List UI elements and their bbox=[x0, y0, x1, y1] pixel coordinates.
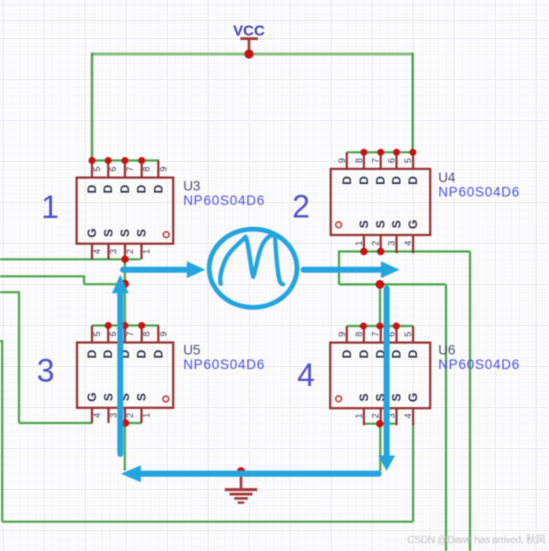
junction U4 pin7 bbox=[377, 149, 384, 156]
junction U6 pin8 bbox=[360, 323, 367, 330]
wire left net step bbox=[83, 275, 85, 284]
svg-text:4: 4 bbox=[297, 357, 315, 393]
wire U3 source rail to left edge bbox=[0, 258, 141, 260]
U4 bottom pin stub 2 bbox=[380, 235, 382, 253]
ground bbox=[225, 467, 257, 503]
U6 top pin stub 5 bbox=[412, 326, 414, 343]
svg-text:5: 5 bbox=[92, 331, 102, 336]
junction U3 pin6 bbox=[105, 157, 112, 164]
U5 top pin stub 6 bbox=[107, 326, 109, 343]
U5 bottom pin stub 3 bbox=[107, 408, 109, 423]
svg-text:7: 7 bbox=[371, 158, 381, 163]
svg-text:G: G bbox=[85, 392, 99, 401]
svg-text:9: 9 bbox=[337, 332, 347, 337]
U6 top pin stub 7 bbox=[380, 326, 382, 343]
svg-text:1: 1 bbox=[354, 413, 364, 418]
svg-text:8: 8 bbox=[354, 158, 364, 163]
svg-text:D: D bbox=[357, 176, 371, 185]
svg-text:5: 5 bbox=[403, 158, 413, 163]
transistor U5 body bbox=[77, 343, 173, 408]
junction U3 pin5 bbox=[89, 157, 96, 164]
U3 pin-1 indicator circle bbox=[163, 232, 169, 238]
wire VCC drop right to U4 bbox=[412, 53, 414, 153]
svg-text:S: S bbox=[102, 229, 116, 237]
junction U3 pin7 bbox=[121, 157, 128, 164]
svg-text:D: D bbox=[357, 349, 371, 358]
svg-text:S: S bbox=[135, 393, 149, 401]
svg-text:5: 5 bbox=[92, 167, 102, 172]
svg-text:7: 7 bbox=[125, 167, 135, 172]
svg-text:D: D bbox=[118, 184, 132, 193]
svg-text:D: D bbox=[101, 349, 115, 358]
svg-text:S: S bbox=[357, 393, 371, 401]
U6 bottom pin stub 1 bbox=[363, 408, 365, 425]
U6 top pin stub 8 bbox=[363, 326, 365, 343]
svg-text:G: G bbox=[406, 220, 420, 229]
wire U5 drain rail bbox=[92, 324, 159, 326]
svg-text:S: S bbox=[135, 229, 149, 237]
svg-text:D: D bbox=[406, 176, 420, 185]
power flag VCC bbox=[233, 23, 265, 54]
wire right outer vertical bbox=[469, 252, 471, 551]
U5 top pin stub 9 bbox=[157, 326, 159, 343]
svg-text:3: 3 bbox=[109, 413, 119, 418]
svg-text:6: 6 bbox=[387, 158, 397, 163]
U5 top pin stub 7 bbox=[124, 326, 126, 343]
svg-text:1: 1 bbox=[142, 413, 152, 418]
U3 top pin stub 6 bbox=[107, 161, 109, 178]
svg-text:1: 1 bbox=[41, 189, 59, 225]
U3 top pin stub 5 bbox=[91, 161, 93, 178]
junction U3 pin8 bbox=[138, 157, 145, 164]
wire left net to node A bbox=[84, 283, 125, 285]
svg-text:D: D bbox=[340, 176, 354, 185]
svg-text:D: D bbox=[406, 349, 420, 358]
svg-text:4: 4 bbox=[92, 249, 102, 254]
svg-text:S: S bbox=[357, 220, 371, 228]
svg-text:NP60S04D6: NP60S04D6 bbox=[183, 357, 265, 372]
svg-text:U5: U5 bbox=[183, 343, 200, 358]
svg-text:9: 9 bbox=[337, 158, 347, 163]
U4 bottom pin stub 3 bbox=[395, 235, 397, 253]
svg-text:5: 5 bbox=[403, 332, 413, 337]
U3 top pin stub 9 bbox=[157, 161, 159, 178]
svg-text:NP60S04D6: NP60S04D6 bbox=[183, 193, 265, 208]
svg-text:NP60S04D6: NP60S04D6 bbox=[438, 185, 520, 200]
svg-text:8: 8 bbox=[354, 332, 364, 337]
svg-text:4: 4 bbox=[403, 241, 413, 246]
svg-text:8: 8 bbox=[142, 331, 152, 336]
U6 bottom pin stub 4 bbox=[412, 408, 414, 425]
wire VCC drop left to U3 bbox=[91, 53, 93, 161]
wire U6 source down to bottom net bbox=[379, 424, 381, 471]
wire U4 source rail bbox=[339, 250, 470, 252]
U5 top pin stub 8 bbox=[141, 326, 143, 343]
svg-text:D: D bbox=[135, 184, 149, 193]
svg-text:NP60S04D6: NP60S04D6 bbox=[438, 357, 520, 372]
U4 top pin stub 9 bbox=[346, 152, 348, 169]
U5 bottom pin stub 1 bbox=[140, 408, 142, 423]
U6 top pin stub 9 bbox=[346, 326, 348, 343]
transistor U4 body bbox=[331, 169, 431, 235]
wire U3 drain rail bbox=[92, 159, 159, 161]
arrow current up left branch bbox=[112, 275, 129, 454]
U5 top pin stub 5 bbox=[91, 326, 93, 343]
U3 bottom pin stub 2 bbox=[124, 244, 126, 260]
svg-text:D: D bbox=[101, 184, 115, 193]
wire left net upper segment bbox=[0, 275, 84, 277]
svg-text:U3: U3 bbox=[183, 179, 200, 194]
svg-text:1: 1 bbox=[354, 241, 364, 246]
U3 top pin stub 8 bbox=[141, 161, 143, 178]
svg-text:2: 2 bbox=[371, 413, 381, 418]
arrow current along bottom bbox=[121, 465, 379, 482]
svg-text:G: G bbox=[85, 228, 99, 237]
junction U5 pin8 bbox=[138, 322, 145, 329]
U3 top pin stub 7 bbox=[124, 161, 126, 178]
U4 bottom pin stub 1 bbox=[363, 235, 365, 253]
wire U6 source segment bbox=[364, 423, 397, 425]
U4 pin-1 indicator circle bbox=[336, 222, 342, 228]
wire left outer vertical bbox=[1, 341, 3, 522]
svg-text:9: 9 bbox=[158, 331, 168, 336]
arrow current down right branch bbox=[378, 289, 395, 472]
svg-text:S: S bbox=[390, 220, 404, 228]
wire node B horizontal bbox=[339, 283, 446, 285]
arrow current out of motor right bbox=[304, 261, 400, 278]
transistor U3 body bbox=[77, 178, 174, 244]
wire U5 source down to bottom net bbox=[124, 423, 126, 471]
junction U6 pin6 bbox=[393, 323, 400, 330]
wire U4 source step down bbox=[338, 250, 340, 284]
svg-text:2: 2 bbox=[292, 189, 310, 225]
wire VCC rail top bbox=[92, 53, 413, 56]
junction VCC bbox=[244, 49, 253, 58]
svg-text:D: D bbox=[85, 349, 99, 358]
transistor U6 body bbox=[330, 343, 430, 409]
junction node B bbox=[376, 280, 385, 289]
arrow current into motor left bbox=[123, 261, 205, 278]
U4 bottom pin stub 4 bbox=[412, 235, 414, 253]
svg-text:3: 3 bbox=[387, 241, 397, 246]
svg-text:3: 3 bbox=[37, 352, 55, 388]
U5 pin-1 indicator circle bbox=[163, 396, 169, 402]
svg-text:2: 2 bbox=[125, 249, 135, 254]
U4 top pin stub 7 bbox=[380, 152, 382, 169]
svg-text:7: 7 bbox=[125, 331, 135, 336]
U6 bottom pin stub 3 bbox=[395, 408, 397, 425]
wire U5 source segment bbox=[118, 422, 142, 424]
svg-text:D: D bbox=[390, 349, 404, 358]
svg-text:2: 2 bbox=[371, 241, 381, 246]
U4 top pin stub 5 bbox=[412, 152, 414, 169]
svg-text:U6: U6 bbox=[438, 343, 455, 358]
U4 top pin stub 8 bbox=[363, 152, 365, 169]
U3 bottom pin stub 4 bbox=[91, 244, 93, 260]
svg-text:8: 8 bbox=[142, 167, 152, 172]
junction U4 pin6 bbox=[393, 149, 400, 156]
svg-text:D: D bbox=[390, 176, 404, 185]
svg-text:6: 6 bbox=[108, 167, 118, 172]
U6 pin-1 indicator circle bbox=[336, 396, 342, 402]
svg-text:S: S bbox=[390, 393, 404, 401]
wire node B down to U6 bbox=[379, 284, 381, 326]
wire U5 gate vertical bbox=[18, 291, 20, 423]
motor M1 circle bbox=[209, 229, 297, 307]
junction U5 pin7 bbox=[121, 322, 128, 329]
U5 bottom pin stub 4 bbox=[91, 408, 93, 423]
wire bottom gate run bbox=[2, 521, 413, 523]
svg-text:S: S bbox=[102, 393, 116, 401]
svg-text:D: D bbox=[340, 349, 354, 358]
svg-text:S: S bbox=[374, 220, 388, 228]
wire U4 drain rail bbox=[347, 151, 413, 153]
svg-text:6: 6 bbox=[108, 331, 118, 336]
svg-text:G: G bbox=[406, 393, 420, 402]
svg-text:CSDN @Dawn has arrived, 秋风: CSDN @Dawn has arrived, 秋风 bbox=[407, 533, 545, 546]
wire U6 drain rail bbox=[347, 325, 413, 327]
U4 top pin stub 6 bbox=[395, 152, 397, 169]
svg-text:1: 1 bbox=[142, 249, 152, 254]
junction U4 pin1 bbox=[360, 248, 367, 255]
wire U5 gate to pin 4 bbox=[19, 422, 92, 424]
U3 bottom pin stub 3 bbox=[107, 244, 109, 260]
U6 top pin stub 6 bbox=[395, 326, 397, 343]
svg-text:9: 9 bbox=[158, 167, 168, 172]
svg-text:2: 2 bbox=[125, 413, 135, 418]
junction U5 pin6 bbox=[105, 322, 112, 329]
junction node A bbox=[121, 280, 129, 288]
junction U3 pin2 bbox=[121, 256, 128, 263]
svg-text:U4: U4 bbox=[438, 170, 456, 185]
wire node A vertical U3-U5 bbox=[124, 259, 126, 325]
wire left edge stub bbox=[0, 340, 3, 342]
wire right inner vertical bbox=[445, 284, 447, 551]
junction U4 pin8 bbox=[360, 149, 367, 156]
svg-text:D: D bbox=[135, 349, 149, 358]
svg-text:D: D bbox=[374, 176, 388, 185]
U3 bottom pin stub 1 bbox=[140, 244, 142, 260]
junction U4 pin5 bbox=[409, 149, 416, 156]
svg-text:D: D bbox=[151, 349, 165, 358]
svg-text:S: S bbox=[118, 229, 132, 237]
svg-text:3: 3 bbox=[109, 249, 119, 254]
junction U6 pin2 bbox=[376, 420, 383, 427]
wire U5 gate from left edge bbox=[0, 291, 19, 293]
U5 bottom pin stub 2 bbox=[124, 408, 126, 423]
svg-text:VCC: VCC bbox=[233, 23, 265, 40]
junction U4 pin2 bbox=[377, 248, 384, 255]
svg-text:4: 4 bbox=[403, 413, 413, 418]
motor M glyph bbox=[220, 235, 283, 285]
junction U5 pin2 bbox=[122, 419, 129, 426]
svg-text:D: D bbox=[85, 184, 99, 193]
svg-text:7: 7 bbox=[371, 332, 381, 337]
U6 bottom pin stub 2 bbox=[380, 408, 382, 425]
junction U6 pin7 bbox=[376, 323, 383, 330]
svg-text:4: 4 bbox=[92, 413, 102, 418]
svg-text:D: D bbox=[151, 184, 165, 193]
wire U6 gate vertical bbox=[412, 423, 414, 522]
